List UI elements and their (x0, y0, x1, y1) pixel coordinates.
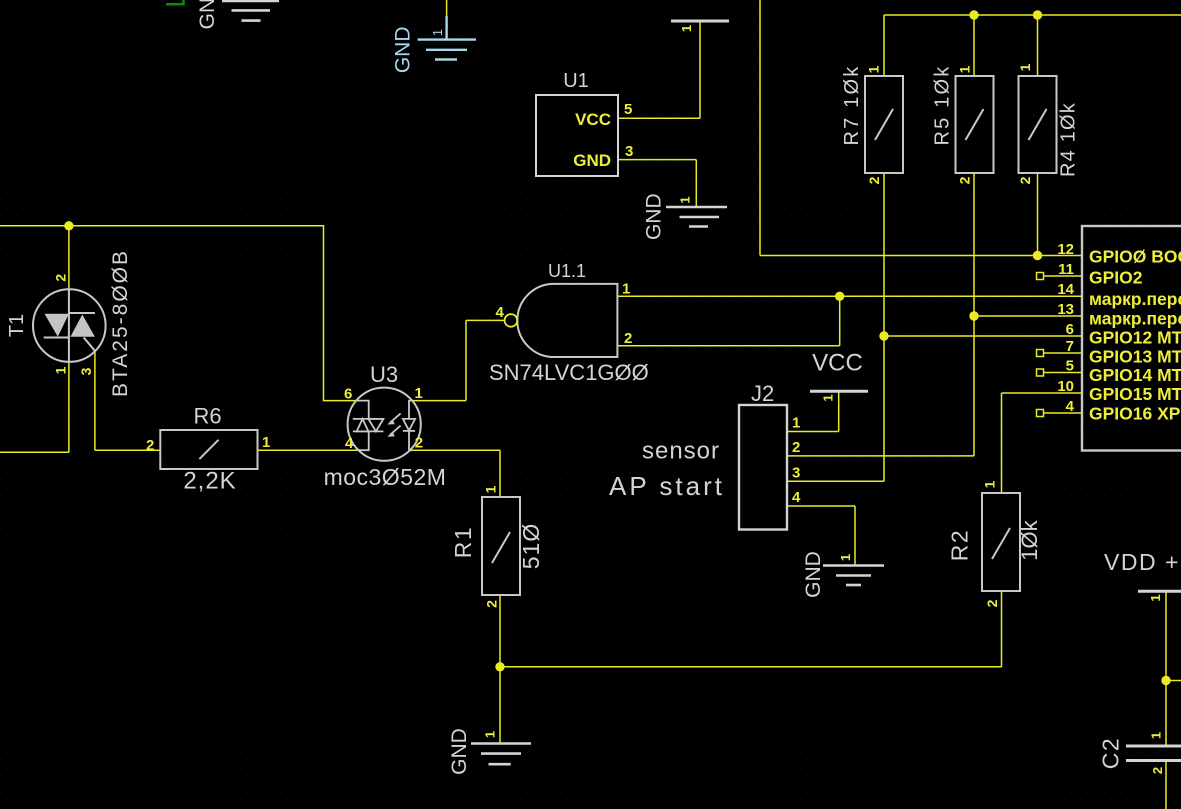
no-connect square IC pin4 (1037, 410, 1044, 417)
svg-text:1: 1 (838, 554, 853, 561)
nand gate U1.1 (489, 261, 649, 385)
svg-text:2: 2 (53, 274, 69, 282)
IC module box (1057, 226, 1181, 451)
wire R2 pin2 down (1001, 591, 1003, 667)
junction R4 net pin12 (1033, 251, 1042, 260)
green wire top-left (166, 0, 184, 4)
wire R6 pin1 to U3 pin4 (258, 449, 359, 451)
wire IC pin7 stub (1044, 352, 1083, 354)
triac T1 (6, 249, 132, 397)
svg-text:GPIO14 MTMS: GPIO14 MTMS (1089, 365, 1181, 385)
svg-text:маркр.перекл: маркр.перекл (1089, 309, 1181, 329)
svg-text:2: 2 (792, 439, 800, 456)
no-connect square IC pin11 (1037, 273, 1044, 280)
svg-text:T1: T1 (6, 314, 28, 337)
svg-text:1: 1 (52, 366, 68, 374)
svg-text:2: 2 (1150, 767, 1165, 774)
svg-text:VDD +3,3: VDD +3,3 (1104, 549, 1181, 575)
svg-text:3: 3 (792, 465, 800, 482)
svg-text:U1: U1 (563, 70, 589, 92)
no-connect square IC pin7 (1037, 350, 1044, 357)
svg-text:2: 2 (984, 599, 1000, 607)
svg-text:BTA25-8ØØB: BTA25-8ØØB (109, 249, 132, 397)
wire U3 pin2 to R1 pin1 (410, 450, 500, 497)
power bar VCC U1 (671, 21, 729, 32)
wire VDD bar to C2 pin1 (1165, 591, 1167, 746)
power bar VCC J2 (810, 350, 868, 402)
svg-text:1: 1 (678, 196, 693, 203)
wire R4 bottom stub (1037, 173, 1039, 256)
svg-text:GND: GND (643, 193, 666, 240)
ground top-left gray (222, 1, 279, 21)
resistor R2 (947, 480, 1043, 607)
svg-text:1: 1 (792, 415, 800, 432)
wire top-right rail (884, 14, 1181, 16)
svg-text:AP start: AP start (609, 471, 725, 501)
svg-text:GND: GND (573, 151, 611, 170)
wire R7 top stub (883, 15, 885, 76)
svg-text:6: 6 (1066, 321, 1074, 338)
svg-text:GPIO15 MTDO: GPIO15 MTDO (1089, 384, 1181, 404)
wire U1 pin5 to VCC bar (618, 21, 700, 118)
no-connect square IC pin5 (1037, 369, 1044, 376)
wire R5 net to IC pin13 (974, 315, 1082, 317)
svg-text:11: 11 (1058, 261, 1074, 278)
wire from top edge to IC pin12 (760, 0, 1082, 256)
wire IC pin10 to R2 pin1 (1002, 393, 1083, 493)
junction gate output (835, 292, 844, 301)
wire R5 bottom to J2 pin2 (787, 173, 974, 456)
svg-text:2: 2 (484, 600, 500, 608)
svg-text:2: 2 (1017, 176, 1033, 184)
svg-text:12: 12 (1057, 241, 1074, 258)
svg-text:3: 3 (625, 143, 633, 160)
resistor R6 (146, 404, 270, 495)
svg-text:7: 7 (1066, 338, 1074, 355)
svg-text:GPIO2: GPIO2 (1089, 268, 1143, 288)
junction VDD net (1161, 676, 1170, 685)
svg-text:1: 1 (1148, 594, 1163, 601)
wire T1 pin2 stub (68, 226, 70, 289)
svg-text:1: 1 (262, 434, 270, 451)
svg-text:2: 2 (624, 330, 632, 347)
wire U3 pin1 to gate pin4 (412, 320, 505, 400)
svg-text:4: 4 (345, 435, 354, 452)
junction T1 top (64, 221, 73, 230)
junction R7 net (879, 331, 888, 340)
svg-text:2: 2 (866, 176, 882, 184)
svg-text:1: 1 (1017, 63, 1033, 71)
svg-text:R4 1Øk: R4 1Øk (1058, 102, 1080, 177)
power bar VDD (1104, 549, 1181, 602)
svg-text:4: 4 (496, 304, 505, 321)
svg-text:1Øk: 1Øk (1017, 519, 1042, 560)
svg-text:1: 1 (483, 731, 498, 738)
svg-text:J2: J2 (751, 381, 774, 406)
resistor R1 (450, 485, 544, 608)
svg-text:13: 13 (1057, 301, 1074, 318)
svg-text:GPIO16 XPD: GPIO16 XPD (1089, 404, 1181, 424)
connector J2 (739, 381, 801, 530)
svg-text:sensor: sensor (642, 438, 720, 465)
svg-text:6: 6 (344, 386, 352, 403)
svg-text:1: 1 (483, 485, 499, 493)
wire J2 pin4 to ground (787, 506, 855, 566)
svg-text:R5 1Øk: R5 1Øk (932, 64, 954, 145)
svg-text:R6: R6 (193, 404, 221, 429)
svg-text:GND: GND (196, 0, 219, 29)
svg-text:R1: R1 (450, 526, 476, 558)
wire R7 bottom to J2 pin3 (787, 173, 884, 481)
svg-text:VCC: VCC (575, 110, 611, 129)
junction top rail R5 (969, 10, 978, 19)
svg-text:SN74LVC1GØØ: SN74LVC1GØØ (489, 360, 649, 385)
svg-text:5: 5 (1066, 358, 1074, 375)
svg-text:moc3Ø52M: moc3Ø52M (324, 464, 447, 490)
svg-text:1: 1 (957, 65, 973, 73)
wire IC pin11 stub (1044, 275, 1083, 277)
ground J2 (823, 566, 884, 586)
wire VDD net to right edge (1166, 680, 1181, 682)
svg-text:10: 10 (1057, 378, 1074, 395)
svg-text:R2: R2 (947, 529, 973, 561)
svg-text:1: 1 (866, 65, 882, 73)
svg-text:U3: U3 (370, 362, 398, 387)
svg-text:VCC: VCC (812, 350, 863, 377)
resistor R5 (932, 64, 994, 184)
wire J2 pin1 to VCC bar (787, 391, 839, 431)
svg-text:2: 2 (957, 176, 973, 184)
wire C2 pin2 to bottom edge (1165, 761, 1167, 809)
wire U1 pin3 to ground (618, 160, 696, 207)
ground blue (418, 16, 476, 60)
component U1 box (536, 70, 633, 176)
svg-text:2: 2 (415, 435, 423, 452)
svg-text:GPIO12 MTDI: GPIO12 MTDI (1089, 328, 1181, 348)
svg-text:5: 5 (624, 101, 632, 118)
svg-text:1: 1 (430, 29, 445, 36)
svg-text:R7 1Øk: R7 1Øk (841, 64, 863, 145)
svg-text:1: 1 (415, 385, 423, 402)
wire gate pin2 loop (617, 296, 839, 346)
capacitor C2 (1098, 732, 1181, 774)
svg-text:C2: C2 (1098, 737, 1124, 769)
svg-text:1: 1 (982, 480, 998, 488)
wire net L top: left edge to U3 pin6 (0, 226, 356, 401)
svg-text:U1.1: U1.1 (548, 261, 586, 281)
svg-text:4: 4 (1066, 398, 1075, 415)
ground R1 (471, 744, 531, 765)
wire bottom rail R1 to R2 (500, 666, 1002, 668)
svg-text:маркр.перекл: маркр.перекл (1089, 289, 1181, 309)
svg-text:2,2K: 2,2K (183, 468, 236, 495)
wire R7 net to IC pin6 (884, 335, 1082, 337)
svg-text:2: 2 (146, 437, 154, 454)
wire T1 gate to R6 pin2 (95, 351, 160, 450)
wire T1 pin1 to left edge (0, 362, 69, 452)
svg-text:14: 14 (1057, 281, 1074, 298)
wire IC pin4 stub (1044, 412, 1083, 414)
resistor R7 (841, 64, 903, 184)
wire R5 top stub (973, 15, 975, 76)
wire R1 pin2 down to ground (499, 595, 501, 744)
svg-text:1: 1 (1149, 732, 1164, 739)
svg-text:1: 1 (821, 394, 836, 401)
wire top edge to blue ground (446, 0, 448, 16)
svg-text:GND: GND (391, 26, 414, 73)
opto-triac U3 (324, 362, 447, 490)
svg-text:1: 1 (679, 25, 694, 32)
svg-text:51Ø: 51Ø (518, 523, 544, 569)
svg-text:3: 3 (78, 367, 94, 375)
svg-text:GPIO13 MTCK: GPIO13 MTCK (1089, 347, 1181, 367)
svg-text:GND: GND (802, 551, 825, 598)
ground U1 (666, 207, 727, 227)
svg-text:GND: GND (448, 728, 471, 775)
junction bottom rail R1 (495, 662, 504, 671)
wire IC pin5 stub (1044, 372, 1083, 374)
junction top rail R4 (1033, 10, 1042, 19)
svg-text:GPIOØ BOOT: GPIOØ BOOT (1089, 247, 1181, 267)
resistor R4 (1017, 63, 1079, 184)
svg-text:1: 1 (622, 281, 630, 298)
wire gate pin1 output to IC pin14 (617, 295, 1082, 297)
svg-text:4: 4 (792, 489, 801, 506)
junction R5 net (969, 311, 978, 320)
wire R4 top stub (1037, 15, 1039, 76)
